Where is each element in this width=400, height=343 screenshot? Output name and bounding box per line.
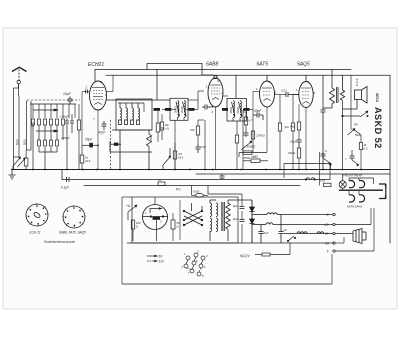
capacitor C19 <box>279 215 284 244</box>
coil L6 <box>137 103 140 125</box>
svg-text:Ω: Ω <box>177 225 179 229</box>
connector divider <box>339 189 383 191</box>
choke L7 <box>252 213 333 215</box>
wire bus D <box>84 185 300 187</box>
shield wall <box>179 200 181 240</box>
switch S4 <box>163 148 171 170</box>
band switch block <box>30 104 76 118</box>
switch S11 on-off <box>305 178 315 181</box>
capacitor C5 bar <box>154 108 161 111</box>
wire diode column <box>251 200 253 243</box>
coil T1a <box>176 101 180 118</box>
capacitor C20 coupling <box>284 92 299 97</box>
wire plate to IF1 <box>106 91 204 100</box>
svg-text:+A: +A <box>126 204 131 208</box>
resistor R3 <box>80 155 84 163</box>
wire top bus A <box>95 69 351 81</box>
ground <box>9 170 16 180</box>
coil L2 <box>27 101 32 150</box>
switch S10 <box>352 150 359 166</box>
resistor R1 <box>24 158 28 166</box>
speaker plug <box>353 229 366 244</box>
capacitor C22 tone2 <box>350 154 355 160</box>
switch S3 arrow <box>33 125 63 140</box>
wire heater line <box>284 233 333 235</box>
resistor R24 <box>359 143 362 150</box>
resistor R25 1k <box>324 183 332 186</box>
capacitor C8 <box>196 144 201 153</box>
wire feedback <box>342 115 361 169</box>
oscillator box <box>116 99 152 130</box>
svg-text:200Ω: 200Ω <box>236 107 240 114</box>
capacitor C5b bar <box>165 108 172 111</box>
resistor R5 <box>160 122 163 130</box>
legend 6V <box>147 255 157 257</box>
wire screen drop <box>319 152 321 186</box>
resistor R17 zigzag <box>323 86 335 108</box>
resistor R19 <box>158 182 165 185</box>
resistor R2 <box>77 120 80 130</box>
coil T2b <box>239 101 243 118</box>
svg-text:12V: 12V <box>159 260 166 264</box>
terminal +2 <box>333 213 335 215</box>
wire top bus drops <box>156 69 158 100</box>
terminal C8 <box>333 242 335 244</box>
svg-text:SEZA: SEZA <box>375 93 379 103</box>
svg-text:250Ω: 250Ω <box>242 156 251 160</box>
svg-text:6AB8: 6AB8 <box>206 62 218 68</box>
svg-text:ECH21: ECH21 <box>88 62 104 68</box>
svg-text:200Ω: 200Ω <box>229 107 233 114</box>
svg-text:47k: 47k <box>190 128 195 132</box>
wire antenna down <box>14 88 19 170</box>
svg-text:120pF: 120pF <box>61 136 70 140</box>
svg-text:500: 500 <box>23 139 27 145</box>
svg-text:240Ω: 240Ω <box>288 151 296 155</box>
IF transformer T1 <box>170 98 188 120</box>
capacitor C17 8uF <box>240 207 245 222</box>
diode D2 <box>250 219 255 224</box>
svg-text:Sockelschema kurzen: Sockelschema kurzen <box>44 240 75 244</box>
wire net box <box>284 164 330 180</box>
svg-text:ASKD 52: ASKD 52 <box>373 107 383 149</box>
connector pins front <box>349 181 365 203</box>
trimmer row 1 <box>32 114 75 128</box>
wire right edge <box>389 75 391 243</box>
transformer T4 secondary <box>210 200 234 241</box>
capacitor C13 25uF <box>297 138 302 148</box>
svg-text:6AB8, 6AT5, 6AQ5: 6AB8, 6AT5, 6AQ5 <box>59 231 86 235</box>
switch S7 <box>360 111 368 117</box>
svg-text:4k5: 4k5 <box>290 125 295 129</box>
switch S9 <box>323 158 331 170</box>
svg-text:8μF: 8μF <box>264 231 269 235</box>
switch S2 arrow <box>33 109 58 111</box>
svg-text:5AQ5: 5AQ5 <box>297 62 310 68</box>
svg-text:6(12)V: 6(12)V <box>240 254 250 258</box>
socket X2 <box>63 206 85 228</box>
svg-text:Ω: Ω <box>136 225 138 229</box>
resistor R12 <box>239 151 267 157</box>
capacitor C7 <box>202 105 213 110</box>
svg-text:10pF: 10pF <box>63 92 72 96</box>
wire bus C <box>62 179 330 181</box>
capacitor C14 <box>321 108 326 170</box>
wire top link <box>147 64 212 76</box>
svg-text:0.5: 0.5 <box>364 147 368 151</box>
choke L8 <box>252 223 333 225</box>
coil L1 500 <box>14 96 20 157</box>
svg-text:25k: 25k <box>149 136 153 141</box>
wire osc internal <box>112 103 152 130</box>
wire connector <box>343 174 374 195</box>
svg-text:+2: +2 <box>325 213 329 217</box>
bus bottom long <box>122 283 332 285</box>
svg-text:A13: A13 <box>85 159 91 163</box>
svg-text:270kΩ: 270kΩ <box>255 134 266 138</box>
capacitor C9 bar <box>222 108 228 111</box>
svg-text:2M: 2M <box>285 125 290 129</box>
capacitor C23 <box>220 174 225 180</box>
resistor R13 <box>278 123 281 131</box>
coil T2a <box>232 101 236 118</box>
resistor R26 270k <box>251 131 254 139</box>
coil L4 <box>125 103 128 125</box>
capacitor C10 bar <box>244 108 250 111</box>
wire terminal links <box>335 208 374 251</box>
coil L5 <box>131 103 134 125</box>
svg-text:0.5Ω: 0.5Ω <box>193 190 200 194</box>
svg-text:μF: μF <box>283 228 288 232</box>
svg-text:1k: 1k <box>158 178 162 182</box>
IF transformer T2 <box>227 99 247 122</box>
wire bus B <box>196 173 390 175</box>
svg-text:200Ω: 200Ω <box>180 106 184 113</box>
svg-text:50Δ: 50Δ <box>355 133 360 137</box>
capacitor C11 50pF <box>253 113 263 121</box>
svg-text:8μF: 8μF <box>233 204 238 208</box>
legend 12V <box>147 260 157 262</box>
resistor R21 0.5ohm <box>192 186 243 201</box>
capacitor C4 <box>114 143 118 146</box>
wire det column <box>243 109 253 169</box>
svg-text:0.1μF: 0.1μF <box>61 186 70 190</box>
resistor R15 <box>297 122 300 130</box>
svg-text:50pF: 50pF <box>85 138 93 142</box>
switch S8 <box>348 129 362 136</box>
bus bottom power <box>127 242 334 244</box>
wire ground bus <box>12 169 390 171</box>
resistor R10 <box>235 135 238 143</box>
terminal F <box>333 250 335 252</box>
trimmer row 2 <box>33 128 72 170</box>
svg-text:6AT5: 6AT5 <box>257 62 269 68</box>
svg-text:25μF: 25μF <box>289 140 297 144</box>
vibrator G1 <box>143 205 168 230</box>
resistor R4 zigzag <box>147 130 152 152</box>
wire T2 bottoms <box>233 109 253 135</box>
terminal 2T <box>333 232 335 234</box>
svg-text:4,9: 4,9 <box>324 223 329 227</box>
power box <box>132 197 238 243</box>
plug pinout <box>184 253 205 276</box>
choke L9 <box>297 232 307 234</box>
svg-text:1MΩ: 1MΩ <box>251 155 258 159</box>
svg-text:47pF: 47pF <box>98 131 106 135</box>
resistor R7 <box>156 123 160 132</box>
svg-text:K: K <box>325 149 327 153</box>
capacitor C6 bar <box>189 108 195 111</box>
svg-text:ECH 21: ECH 21 <box>30 231 41 235</box>
wire top bus B <box>106 74 390 76</box>
node gang dashed link <box>27 99 80 101</box>
resistor R11 <box>244 117 247 125</box>
wire x205 <box>204 120 206 170</box>
resistor R22 100ohm <box>131 220 134 229</box>
svg-text:4.7: 4.7 <box>249 119 253 123</box>
svg-text:5k: 5k <box>161 126 165 130</box>
svg-text:1kΩ: 1kΩ <box>320 179 326 183</box>
speaker LS <box>343 75 368 130</box>
vibrator contacts <box>183 203 203 226</box>
capacitor C12 <box>244 131 249 137</box>
capacitor C2 50pF <box>82 144 98 146</box>
capacitor C1 10pF <box>68 97 73 105</box>
junction dots <box>11 169 362 171</box>
transformer T4 primary <box>210 202 224 232</box>
svg-text:500: 500 <box>15 139 19 145</box>
transformer T3 output <box>337 75 345 169</box>
resistor R16 <box>297 148 300 158</box>
connector bracket <box>379 184 386 199</box>
svg-text:2T: 2T <box>325 232 329 236</box>
wire rect out <box>234 200 252 243</box>
diode D1 <box>250 207 255 212</box>
svg-text:F: F <box>327 250 329 254</box>
lamp LP1 <box>339 178 346 191</box>
resistor R6 <box>173 151 176 159</box>
antenna <box>12 67 27 88</box>
terminal 4,9 <box>333 223 335 225</box>
resistor R9 <box>196 126 199 135</box>
wire IF1 bottoms <box>162 100 198 170</box>
svg-text:NF: NF <box>354 123 358 127</box>
capacitor C18 <box>259 225 264 244</box>
switch S1 contacts <box>13 157 25 170</box>
choke L10 <box>317 232 324 234</box>
svg-text:FRONT REAR: FRONT REAR <box>343 174 363 178</box>
svg-text:C8: C8 <box>325 242 329 246</box>
svg-text:120pF: 120pF <box>60 115 69 119</box>
potentiometer P1 <box>241 141 252 150</box>
coil T1b <box>183 101 187 118</box>
wire AVC dashed <box>110 120 112 170</box>
fuse F1 <box>255 243 290 256</box>
resistor R20 1M <box>243 159 268 163</box>
switch S5 <box>128 205 137 220</box>
socket X1 ECH21 <box>26 204 48 226</box>
capacitor C3 47pF <box>102 121 107 130</box>
wire left drop <box>122 197 332 284</box>
capacitor C15 0.1uF <box>67 177 70 182</box>
svg-text:500kΩ: 500kΩ <box>247 145 257 149</box>
svg-text:A13: A13 <box>178 156 184 160</box>
resistor R14 <box>291 123 294 131</box>
svg-text:50pF: 50pF <box>254 109 262 113</box>
svg-text:8μF: 8μF <box>233 217 238 221</box>
capacitor C21 tone <box>321 152 326 158</box>
switch S6 <box>287 236 295 242</box>
svg-text:6AT6 6AK6: 6AT6 6AK6 <box>347 205 362 209</box>
svg-text:PU: PU <box>176 188 181 192</box>
coil L3 <box>119 103 122 125</box>
capacitor C16 <box>171 220 175 229</box>
svg-text:0.01: 0.01 <box>281 89 287 93</box>
